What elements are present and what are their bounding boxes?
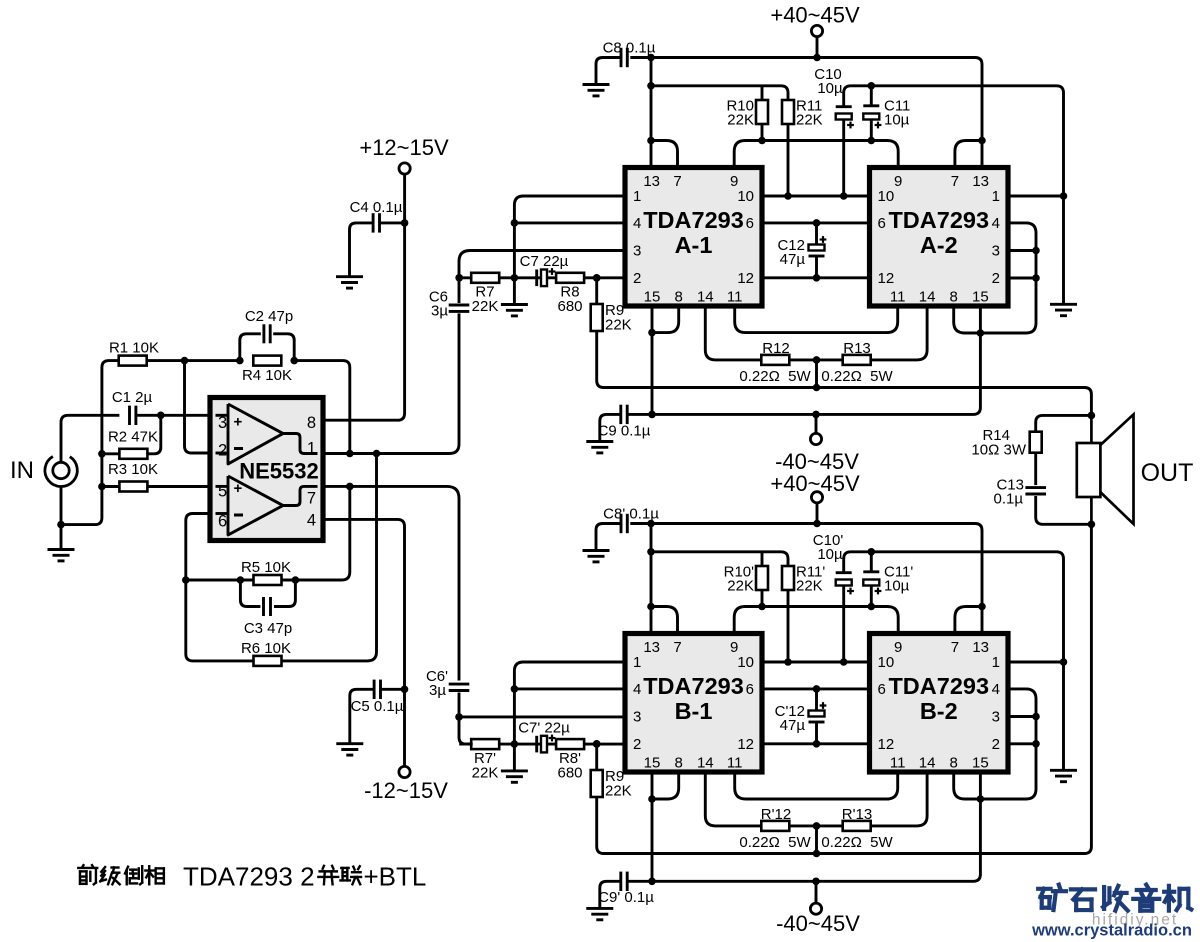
junction speaker top [1088,412,1096,420]
svg-text:11: 11 [727,755,743,772]
junction C12 bottom [813,274,821,282]
ground below C5 [336,744,363,755]
svg-text:TDA7293: TDA7293 [888,207,989,233]
wire pin8 NE5532 to +12V [323,174,405,420]
svg-text:IN: IN [10,457,34,484]
junction pin8/15 A-2 [977,329,985,337]
label R10 22K [726,98,754,129]
svg-text:www.crystalradio.cn: www.crystalradio.cn [1031,922,1192,940]
junctions -V rail B [648,878,820,886]
svg-text:6: 6 [878,215,886,232]
wire C10' bottom [842,586,845,663]
svg-text:0.22Ω 5W: 0.22Ω 5W [821,368,893,385]
wire R12 to R13 [789,358,842,361]
capacitor C'12 47u [815,689,818,744]
svg-text:TDA7293: TDA7293 [888,673,989,699]
svg-text:3µ: 3µ [429,682,446,699]
svg-text:8: 8 [950,755,958,772]
wire pin15 A-2 to -V rail [960,306,980,414]
label R7' 22K [472,750,499,782]
junction C11 top [868,82,876,90]
svg-text:9: 9 [894,173,902,190]
wire pin13 A-1 drop [650,58,653,168]
wire pin1 NE5532 output line [323,452,443,455]
resistor R'12 body [761,821,789,831]
wire mute row to pin9 A-2 [762,141,898,168]
svg-text:10µ: 10µ [884,578,910,595]
junction pin3 B-1 tee [455,713,463,721]
wire pin7 NE5532 output line [323,486,459,680]
svg-text:10: 10 [737,654,754,671]
capacitor C10' symbol [836,573,854,595]
svg-text:2: 2 [633,270,641,287]
capacitor C11 10u [884,98,910,129]
junction R'12/R'13 [813,822,821,830]
svg-text:12: 12 [878,270,895,287]
resistor R5 body [254,575,282,585]
svg-text:0.22Ω 5W: 0.22Ω 5W [739,834,811,851]
junctions C3 arch ends [237,576,300,584]
svg-text:15: 15 [644,289,661,306]
wire R10 bottom to pin9 A-1 [734,141,762,168]
svg-text:22K: 22K [796,578,823,595]
labels R12 [739,340,811,385]
svg-text:22K: 22K [796,112,823,129]
ground NE-B row [501,771,528,782]
svg-text:C8 0.1µ: C8 0.1µ [603,40,656,57]
wire C8' to ground [596,524,621,551]
svg-text:OUT: OUT [1141,459,1194,487]
capacitor C9' symbol [621,872,627,891]
junction output A line [813,384,821,392]
wire pin11 A-1 to pin11 A-2 [735,306,898,333]
capacitor C3 47p arch [240,580,260,607]
hanzi 联 [340,866,361,884]
wire pin15 A-1 drop [651,306,654,414]
svg-text:47µ: 47µ [780,251,806,268]
junction pin1 A-2 / ground drop [1060,192,1068,200]
svg-text:22K: 22K [605,317,632,334]
junctions ground drop A [511,219,519,227]
wire ground row A right [864,86,1064,304]
resistor R1 body [119,356,147,366]
op-amp IC NE5532 [210,398,323,541]
hanzi 级 [100,867,119,884]
wire R14 to C13 [1034,453,1037,485]
junction pin13/pin7 A-2 [978,137,986,145]
speaker OUT [1077,414,1134,524]
label R10' 22K [724,564,755,595]
wire snubber bottom [1036,496,1092,524]
svg-text:3: 3 [992,243,1000,260]
wire pin12' line [762,742,870,745]
svg-text:10: 10 [737,188,754,205]
wire C1 to pin3 NE5532 [136,414,210,417]
logo hanzi 音 [1133,885,1159,911]
resistor R10' body [756,566,768,590]
svg-text:4: 4 [633,681,641,698]
svg-text:4: 4 [307,512,316,530]
wire pin10 A-1 to pin10 A-2 [762,195,870,198]
svg-text:22K: 22K [472,298,499,315]
wire C11 bottom [870,120,873,141]
wire pin4 NE5532 to -12V [323,519,405,766]
resistor R10 body [756,100,768,124]
capacitor C12 47u [815,223,818,278]
svg-text:14: 14 [919,755,936,772]
svg-text:15: 15 [972,289,989,306]
junction pin4 B-1 [511,685,519,693]
svg-text:+BTL: +BTL [364,862,427,892]
svg-text:R13: R13 [843,340,871,357]
wire R3 left [102,485,120,488]
junctions -V rail A [648,411,820,419]
label R11' 22K [796,564,825,595]
wire R5 row [186,486,350,580]
power terminal +40~45V (A) [770,3,860,58]
capacitor C9 symbol [621,405,627,424]
svg-text:6: 6 [218,513,227,531]
svg-text:B-2: B-2 [920,698,958,724]
wire C11' top [870,552,873,572]
power terminal -40~45V (A) [775,414,859,474]
wire pin2 B-1 row [459,743,625,746]
IC TDA7293 B-2 [870,634,1009,773]
resistor R4 body [253,356,281,366]
logo hanzi 石 [1071,889,1095,910]
capacitor C'12 symbol [809,702,827,722]
svg-text:6: 6 [746,681,754,698]
ground below jack [48,550,75,561]
power terminal -40~45V (B) [776,881,860,936]
svg-text:0.22Ω 5W: 0.22Ω 5W [739,368,811,385]
label R9' 22K [605,768,632,800]
label C12 47u [777,237,805,268]
svg-text:A-2: A-2 [920,232,958,258]
resistor R11' body [782,566,794,590]
label R7 22K [472,284,499,316]
svg-text:47µ: 47µ [780,717,806,734]
wire +V rail A to pin13 A-2 [630,58,982,168]
svg-text:13: 13 [643,639,660,656]
ground below C9 [586,442,613,453]
label R8 680 [557,284,582,316]
svg-text:680: 680 [557,765,582,782]
wire pin4 A-1 stub [514,221,625,224]
wire R1 left to ground column [61,361,119,525]
hanzi 相 [145,866,163,884]
svg-text:C7' 22µ: C7' 22µ [518,720,570,737]
wire pin3 B-1 line [459,715,625,718]
wire -V rail A [628,413,961,416]
wire R4 right to pin1 column [294,361,350,454]
wire R10' bottom stub [761,590,764,607]
wire pin6' line [762,687,870,690]
wire R2 right arch to pin3 line [148,415,161,454]
svg-text:NE5532: NE5532 [239,459,319,484]
capacitor C13 0.1u [1025,488,1046,494]
wire output B [597,524,1092,853]
svg-text:R6 10K: R6 10K [241,640,291,657]
junction jack ground [57,521,65,529]
wire pin4/3/2 B-2 bus [980,689,1036,799]
wire pin1 B-1 to ground [514,662,625,770]
svg-text:13: 13 [643,173,660,190]
svg-text:10µ: 10µ [884,112,910,129]
ground B-2 right [1050,770,1077,781]
wire C10' top [844,552,864,573]
svg-text:13: 13 [972,639,989,656]
ground A-2 right [1050,304,1077,315]
junctions pin3/pin2 B-2 bus [1032,713,1040,748]
wire C11 top [870,86,873,106]
wire C4 row [380,221,405,224]
wire C10 bottom [842,120,845,197]
wire pin2 A-2 stub [1008,277,1036,280]
svg-text:1: 1 [633,654,641,671]
svg-text:C3 47p: C3 47p [244,620,292,637]
wire pin4/3/2 A-2 bus [980,223,1036,333]
svg-text:B-1: B-1 [675,698,713,724]
svg-text:7: 7 [673,173,681,190]
wire pin4 B-1 stub [514,687,625,690]
svg-text:8: 8 [675,755,683,772]
svg-text:3: 3 [633,243,641,260]
wire pin1 A-2 to ground drop [1008,195,1064,198]
wire R10 top tap [761,86,764,100]
wire R1 right to R4 node [146,359,240,362]
svg-text:12: 12 [878,736,895,753]
svg-text:12: 12 [737,736,754,753]
wire output A [597,331,1092,415]
capacitor C2 47p arch [240,334,261,361]
resistor R8 body [556,273,584,283]
svg-text:C5 0.1µ: C5 0.1µ [351,698,404,715]
svg-text:2: 2 [992,270,1000,287]
wire pin8 B-1 stub [652,772,679,799]
junction pin8/15 B-2 [977,795,985,803]
svg-text:8: 8 [307,414,316,432]
wire R10' top tap [761,552,764,566]
label R14 10ohm 3W [971,427,1026,459]
IC TDA7293 A-2 [870,168,1009,307]
svg-text:R1 10K: R1 10K [109,340,159,357]
junction x651 rail [647,54,655,62]
junction R5 node left [182,576,190,584]
wire -V rail B [628,880,961,883]
junctions on pin1 line [346,450,380,458]
svg-text:TDA7293: TDA7293 [643,673,744,699]
svg-text:3: 3 [992,709,1000,726]
logo hanzi 收 [1103,886,1128,911]
svg-text:R12: R12 [762,340,790,357]
svg-text:2: 2 [633,736,641,753]
svg-text:4: 4 [992,681,1000,698]
svg-text:13: 13 [972,173,989,190]
wire pin8 A-2 stub [954,306,981,333]
wire C5 row [381,688,405,691]
capacitor C7' 22u [537,735,556,753]
wire R11 bottom to pin10 line [787,124,790,196]
junction output B line [813,850,821,858]
capacitor C1 symbol [130,406,136,425]
wire R13 to pin14 A-2 [871,306,927,360]
svg-text:+12~15V: +12~15V [359,135,449,160]
wire pin3 B-2 stub [1008,715,1036,718]
label R11 22K [796,98,823,129]
wire pin2 B-2 stub [1008,742,1036,745]
wire C5 left to ground [350,689,374,743]
svg-text:7: 7 [307,490,316,508]
ground NE-A row [501,305,528,316]
labels R'12 [739,806,811,851]
junctions on pin10' line [784,658,847,666]
svg-text:-40~45V: -40~45V [776,911,860,936]
resistor R9' 22K [595,744,598,770]
wire pin7 B-2 branch [955,607,982,634]
wire C6 bottom to op1 output line [440,313,459,453]
junction pin1 B-2 / ground drop [1060,658,1068,666]
svg-text:22K: 22K [472,765,499,782]
svg-text:A-1: A-1 [675,232,713,258]
capacitor C6 3u [449,305,470,311]
junctions R7 row [455,274,600,282]
label C6 3u [429,289,449,320]
svg-text:9: 9 [894,639,902,656]
svg-text:C1 2µ: C1 2µ [112,389,153,406]
wire R12R13 junction drop [815,360,818,388]
wire pin15 B-1 drop [651,772,654,881]
capacitor C6' symbol [449,684,470,690]
IC TDA7293 B-1 [625,634,762,773]
capacitor C10 10u [814,66,843,97]
wire R'13 to pin14 B-2 [871,772,927,826]
wire pin1 A-1 to ground [514,196,625,304]
svg-text:7: 7 [951,639,959,656]
resistor R2 body [119,449,147,459]
svg-text:+: + [234,480,243,497]
svg-text:2: 2 [992,736,1000,753]
ground below C4 [336,277,363,288]
svg-text:10: 10 [878,654,895,671]
svg-text:R4 10K: R4 10K [242,367,292,384]
wire pin8 B-2 stub [954,772,981,799]
power terminal -12~15V [364,766,448,803]
svg-text:3µ: 3µ [431,303,448,320]
wire pin3 A-2 stub [1008,249,1036,252]
svg-text:15: 15 [644,755,661,772]
op-amp triangle U1a [216,404,318,464]
wire R'12 to R'13 [789,824,842,827]
capacitor C11' 10u [884,564,913,595]
resistor R7 body [471,273,499,283]
junction C4 [401,219,409,227]
capacitor C10 symbol [836,107,854,129]
resistor R3 body [119,482,147,492]
label R9 22K [605,302,632,334]
svg-text:2: 2 [218,442,227,460]
label R8' 680 [557,750,582,782]
junction R9 top [593,274,601,282]
svg-text:4: 4 [992,215,1000,232]
wire pin14 A-1 to R12 [705,306,761,360]
svg-text:22K: 22K [605,783,632,800]
capacitor C10' 10u [813,532,844,563]
labels R13 [821,340,893,385]
input jack IN [10,456,77,486]
wire C8 to ground [596,58,621,85]
svg-text:11: 11 [890,289,906,306]
resistor R9' body [591,770,603,797]
wire pin7 A-2 branch [955,141,982,168]
junctions on pin13 A-1 drop [647,82,655,144]
junctions on pin10 line [784,192,847,200]
wire pin14 B-1 to R'12 [705,772,761,826]
svg-text:C4 0.1µ: C4 0.1µ [350,199,403,216]
wire C10 top [844,86,864,107]
logo hanzi 矿 [1038,885,1066,910]
svg-text:R3 10K: R3 10K [108,461,158,478]
junction x651 rail B [647,520,655,528]
junctions pin3/pin2 A-2 bus [1032,247,1040,282]
svg-text:12: 12 [737,270,754,287]
junction pin8/15 A-1 [648,329,656,337]
svg-text:14: 14 [697,289,714,306]
svg-text:680: 680 [557,298,582,315]
capacitor C8 0.1u [603,40,656,68]
svg-text:10µ: 10µ [817,80,843,97]
wire snubber top [1036,415,1092,432]
wire pin7 B-1 branch [651,607,678,634]
svg-text:C9' 0.1µ: C9' 0.1µ [598,889,654,906]
svg-text:22K: 22K [727,578,754,595]
junction C12 top [813,219,821,227]
junctions mute row B [758,603,875,611]
svg-text:10µ: 10µ [817,546,843,563]
resistor R6 body [254,656,282,666]
junction pin13/pin7 B-2 [978,603,986,611]
label C13 0.1u [994,477,1025,508]
svg-text:+40~45V: +40~45V [770,3,860,28]
wire mute row B to pin9 B-2 [762,607,898,634]
wire pin6 NE5532 elbow [186,514,254,661]
capacitor C11 symbol [863,106,881,129]
wire pin8 A-1 stub [652,306,679,333]
resistor R11 body [782,100,794,124]
wire C6' bottom to R7' row [459,693,473,745]
svg-text:1: 1 [992,654,1000,671]
resistor R8' body [556,739,584,749]
svg-text:3: 3 [633,709,641,726]
svg-text:R'12: R'12 [761,806,791,823]
svg-text:C7 22µ: C7 22µ [520,253,569,270]
wire C9' left to ground [600,881,621,908]
wire pin3 A-1 to C6 [459,251,625,304]
svg-text:+: + [234,414,243,431]
junction pin8/15 B-1 [648,795,656,803]
wire R2 left [102,452,120,455]
label C6' 3u [426,668,448,699]
wire pin7 A-1 branch [651,141,678,168]
wire pin10' line [762,661,870,664]
svg-text:0.1µ: 0.1µ [994,491,1024,508]
svg-text:TDA7293 2: TDA7293 2 [183,862,315,892]
hanzi 前 [78,865,97,884]
svg-text:1: 1 [992,188,1000,205]
junction R9' top [593,740,601,748]
svg-text:8: 8 [675,289,683,306]
label C'12 47u [775,703,806,734]
